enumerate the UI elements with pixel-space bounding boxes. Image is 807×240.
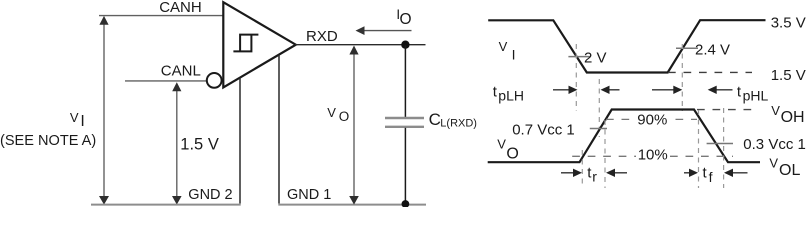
dashed vertical at VI 2V crossing	[575, 44, 577, 111]
threshold tick 2 V	[568, 56, 590, 58]
svg-text:GND 1: GND 1	[287, 187, 331, 203]
tpHL left-pointing arrow	[708, 86, 733, 94]
ground rail GND1	[278, 204, 426, 206]
dashed vertical at VI 2.4V crossing	[681, 44, 683, 111]
svg-text:OL: OL	[779, 162, 800, 179]
measurement arrow VO (double headed)	[349, 46, 359, 205]
dashed vertical at VO 90% falling (tf left)	[698, 110, 700, 188]
svg-text:CANL: CANL	[161, 63, 201, 80]
dashed 1.5V level extension	[668, 71, 752, 73]
svg-text:pLH: pLH	[498, 88, 524, 104]
waveform VI input	[488, 20, 765, 72]
dashed 90% level left segment	[606, 118, 636, 120]
svg-text:2 V: 2 V	[584, 49, 607, 66]
wire: triangle to GND2 rail	[239, 78, 241, 204]
wire RXD node to capacitor	[404, 45, 406, 117]
threshold tick 2.4 V	[676, 47, 698, 49]
inverting bubble on CANL input	[207, 73, 222, 88]
svg-text:OH: OH	[781, 109, 805, 126]
junction node on GND1 rail	[402, 200, 410, 208]
tr left-pointing arrow	[606, 169, 627, 177]
svg-text:V: V	[327, 105, 336, 120]
svg-text:C: C	[429, 110, 441, 129]
tpLH left-pointing arrow	[601, 86, 620, 94]
svg-text:r: r	[592, 169, 597, 185]
svg-text:3.5 V: 3.5 V	[771, 15, 806, 32]
tf left-pointing arrow	[724, 169, 748, 177]
svg-text:GND 2: GND 2	[188, 187, 232, 203]
tpLH right-pointing arrow	[553, 86, 578, 94]
svg-text:pHL: pHL	[743, 88, 769, 104]
svg-text:I: I	[512, 46, 516, 62]
op-amp U1 receiver triangle	[223, 2, 295, 87]
svg-text:1.5 V: 1.5 V	[771, 67, 806, 84]
svg-text:10%: 10%	[638, 146, 668, 163]
svg-text:V: V	[70, 110, 79, 125]
dashed vertical at VO 10% falling (tf right)	[723, 108, 725, 188]
dashed vertical at VO 90% rising (tr right)	[604, 120, 606, 188]
tf right-pointing arrow	[684, 169, 698, 177]
svg-text:CANH: CANH	[159, 0, 202, 16]
dashed 10% level right segment	[670, 155, 733, 157]
wire capacitor to ground rail	[404, 128, 406, 204]
hysteresis symbol inside U1	[233, 35, 258, 52]
measurement arrow VI (double headed)	[99, 16, 109, 205]
svg-text:1.5 V: 1.5 V	[180, 136, 219, 154]
wire: triangle to GND1 rail	[278, 55, 280, 204]
svg-text:V: V	[499, 39, 508, 54]
threshold tick 0.3 Vcc	[707, 143, 733, 145]
measurement arrow 1.5 V (double headed)	[172, 82, 182, 204]
wire RXD output	[295, 44, 426, 46]
threshold tick 0.7 Vcc	[590, 128, 607, 130]
svg-text:L(RXD): L(RXD)	[440, 118, 477, 130]
svg-text:O: O	[339, 109, 350, 124]
svg-text:I: I	[80, 113, 84, 130]
svg-text:(SEE NOTE A): (SEE NOTE A)	[0, 133, 96, 149]
svg-text:2.4 V: 2.4 V	[695, 41, 730, 58]
junction node on RXD	[401, 41, 409, 49]
wire CANL horizontal	[125, 80, 206, 82]
current arrow IO	[356, 26, 412, 35]
dashed 10% level left segment	[572, 155, 636, 157]
svg-text:V: V	[771, 103, 780, 118]
dashed vertical at VO 50% rising crossing	[598, 79, 600, 137]
svg-text:O: O	[400, 11, 412, 28]
svg-text:O: O	[506, 146, 518, 163]
dashed vertical at VO 10% rising (tr left)	[581, 150, 583, 188]
tr right-pointing arrow	[561, 169, 582, 177]
dashed 90% level right segment	[676, 118, 698, 120]
svg-text:RXD: RXD	[306, 28, 338, 45]
waveform VO output	[488, 110, 760, 163]
capacitor CL(RXD)	[385, 118, 424, 127]
svg-text:0.7 Vcc 1: 0.7 Vcc 1	[512, 121, 575, 138]
svg-text:90%: 90%	[637, 112, 667, 129]
dashed VOH level extension	[697, 109, 753, 111]
svg-text:V: V	[497, 137, 506, 152]
svg-text:0.3 Vcc 1: 0.3 Vcc 1	[743, 136, 806, 153]
svg-text:V: V	[769, 156, 778, 171]
wire CANH horizontal	[99, 15, 224, 17]
ground rail GND2	[91, 204, 241, 206]
svg-text:f: f	[709, 169, 713, 185]
tpHL right-pointing arrow	[652, 86, 682, 94]
